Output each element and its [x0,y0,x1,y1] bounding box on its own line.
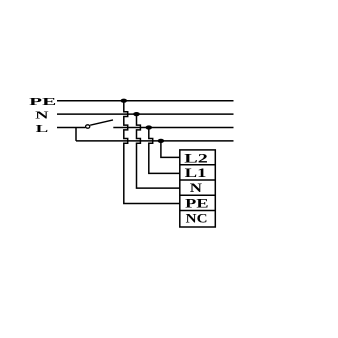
terminal block divider 2 [180,179,216,181]
svg-text:NC: NC [186,212,208,226]
wire switched drop to terminal L2 [161,141,180,158]
switch S1 blade [90,120,113,125]
junction PE bus [121,99,128,103]
wire N bus [57,113,234,115]
svg-text:PE: PE [185,196,208,210]
terminal block divider 4 [180,210,216,212]
wire PE bus [57,100,234,102]
junction switched bus [158,139,165,143]
switch S1 pivot [86,125,90,128]
wire switched line bus [76,140,234,142]
terminal block divider 3 [180,194,216,196]
svg-text:L2: L2 [184,152,208,166]
wire L branch drop [75,128,77,141]
svg-text:L: L [36,124,49,135]
svg-text:N: N [35,111,49,122]
junction L bus [146,125,153,129]
junction N bus [133,112,140,116]
terminal block divider 1 [180,164,216,166]
wire L bus left segment [57,127,85,129]
wire N drop to terminal N with hops [137,114,180,188]
wire PE drop to terminal PE with hops [124,101,180,204]
wire L drop to terminal L1 with hop [149,128,180,174]
svg-text:N: N [190,181,203,195]
terminal block X1 outline [180,150,216,227]
svg-text:PE: PE [29,97,56,108]
svg-text:L1: L1 [185,166,207,180]
wire L bus right segment [113,127,233,129]
